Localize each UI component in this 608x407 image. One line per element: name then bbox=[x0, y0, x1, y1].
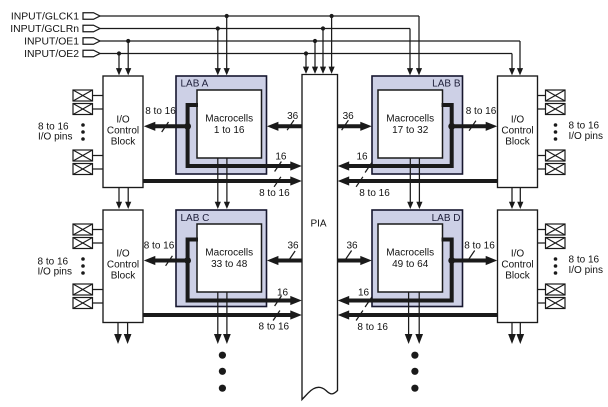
junction GLCK1-LABA bbox=[225, 14, 229, 18]
svg-text:Control: Control bbox=[107, 260, 139, 271]
bus PIA to LAB D (36) bbox=[338, 256, 372, 265]
junction OE2-PIA bbox=[304, 51, 308, 55]
label 8 to 16 I/O pins left bottom bbox=[38, 256, 72, 277]
label 8 to 16 (left I/O to PIA) bbox=[259, 188, 290, 199]
junction GCLRn-PIA bbox=[321, 26, 325, 30]
label 8 to 16 I/O pins right top bbox=[569, 121, 603, 143]
bus PIA to LAB C (36) bbox=[267, 256, 302, 265]
label 8 to 16 (right I/O to PIA) bbox=[359, 188, 390, 199]
svg-text:8 to 16: 8 to 16 bbox=[466, 106, 497, 117]
svg-text:PIA: PIA bbox=[310, 219, 326, 230]
svg-text:I/O: I/O bbox=[511, 115, 525, 126]
I/O pin symbol left bottom 4 bbox=[73, 298, 103, 309]
bus PIA to LAB A (36) bbox=[267, 122, 302, 131]
wire GCLRn drop to PIA bbox=[320, 29, 326, 74]
wire GCLRn drop to LAB B bbox=[407, 29, 413, 76]
input buffer INPUT/OE1 bbox=[83, 38, 100, 45]
I/O pin symbol left bottom 1 bbox=[73, 224, 103, 235]
bus width slash bbox=[468, 251, 475, 261]
LAB D block bbox=[372, 210, 463, 307]
I/O pin symbol left top 1 bbox=[73, 90, 103, 101]
bus width slash bbox=[342, 120, 349, 130]
label 8 to 16 (LAB D to I/O) bbox=[464, 240, 495, 251]
bus LAB A to left I/O (8 to 16) bbox=[144, 122, 188, 131]
svg-text:8 to 16: 8 to 16 bbox=[357, 322, 388, 333]
wire GLCK1 drop to LAB A bbox=[224, 16, 230, 75]
I/O pin symbol left bottom 3 bbox=[73, 284, 103, 295]
bus LAB C to PIA (16) bbox=[188, 240, 302, 306]
svg-text:LAB D: LAB D bbox=[432, 213, 461, 224]
PIA block bbox=[302, 75, 338, 400]
wire GLCK1 drop to LAB B bbox=[416, 16, 422, 75]
label 8 to 16 I/O pins left top bbox=[38, 122, 72, 143]
I/O Control Block top-right bbox=[498, 76, 538, 188]
bus width slash bbox=[274, 177, 281, 187]
junction bus LAB C bbox=[184, 257, 191, 264]
wires LAB A to LAB C bbox=[215, 158, 230, 209]
bus width slash bbox=[356, 311, 363, 321]
label 8 to 16 (LAB C to I/O) bbox=[144, 240, 175, 251]
I/O pin symbol left top 3 bbox=[73, 150, 103, 161]
svg-text:LAB A: LAB A bbox=[181, 79, 209, 90]
svg-text:1 to 16: 1 to 16 bbox=[214, 125, 245, 136]
macrocells 17 to 32 box bbox=[378, 90, 443, 158]
svg-text:Block: Block bbox=[505, 271, 530, 282]
svg-text:Block: Block bbox=[111, 271, 136, 282]
I/O pin symbol right bottom 2 bbox=[538, 238, 566, 249]
bus width slash bbox=[275, 162, 282, 172]
svg-text:INPUT/GCLRn: INPUT/GCLRn bbox=[10, 24, 79, 35]
bus LAB B to PIA (16) bbox=[338, 105, 452, 171]
I/O pins dots left top bbox=[81, 123, 85, 141]
I/O pin symbol right bottom 4 bbox=[538, 298, 566, 309]
I/O pin symbol right top 2 bbox=[538, 104, 566, 115]
bus width slash bbox=[469, 121, 476, 131]
wires below LAB C bbox=[214, 292, 231, 344]
svg-text:8 to 16: 8 to 16 bbox=[145, 106, 176, 117]
label 8 to 16 I/O pins right bottom bbox=[569, 255, 603, 276]
bus width slash bbox=[288, 251, 295, 261]
svg-text:Macrocells: Macrocells bbox=[205, 114, 253, 125]
I/O pin symbol right top 3 bbox=[538, 150, 566, 161]
bus width slash bbox=[162, 122, 169, 132]
LAB B block bbox=[372, 76, 463, 174]
bus LAB A to PIA (16) bbox=[188, 105, 302, 171]
continuation dots below LAB D bbox=[411, 352, 418, 392]
svg-text:Control: Control bbox=[501, 126, 533, 137]
svg-text:Macrocells: Macrocells bbox=[386, 248, 434, 259]
wire GLCK1 drop to PIA bbox=[329, 16, 335, 74]
svg-text:Macrocells: Macrocells bbox=[205, 248, 253, 259]
macrocells 33 to 48 box bbox=[197, 224, 262, 292]
I/O pins dots left bottom bbox=[81, 257, 85, 275]
svg-text:8 to 16: 8 to 16 bbox=[259, 322, 290, 333]
svg-text:LAB B: LAB B bbox=[432, 79, 461, 90]
bus LAB D to PIA (16) bbox=[338, 240, 452, 306]
svg-text:INPUT/OE2: INPUT/OE2 bbox=[24, 49, 79, 60]
svg-text:16: 16 bbox=[277, 287, 289, 298]
I/O pin symbol left top 4 bbox=[73, 164, 103, 175]
I/O Control Block bottom-left bbox=[103, 210, 143, 323]
svg-text:8 to 16: 8 to 16 bbox=[569, 121, 600, 132]
label 8 to 16 (LAB B to I/O) bbox=[466, 106, 497, 117]
I/O pin symbol left bottom 2 bbox=[73, 238, 103, 249]
junction bus LAB A bbox=[184, 123, 191, 130]
svg-text:36: 36 bbox=[287, 240, 299, 251]
junction OE1-PIA bbox=[313, 39, 317, 43]
label 16 (LAB D to PIA) bbox=[358, 287, 370, 298]
svg-text:8 to 16: 8 to 16 bbox=[464, 240, 495, 251]
wires LAB B to LAB D bbox=[407, 158, 422, 209]
bus width slash bbox=[166, 256, 173, 266]
svg-text:INPUT/GLCK1: INPUT/GLCK1 bbox=[11, 12, 79, 23]
label 36 (PIA to LAB C) bbox=[287, 240, 299, 251]
svg-text:Macrocells: Macrocells bbox=[386, 114, 434, 125]
macrocells 49 to 64 box bbox=[378, 224, 443, 292]
bus LAB D to right I/O (8 to 16) bbox=[452, 256, 498, 265]
svg-text:LAB C: LAB C bbox=[181, 213, 210, 224]
wire OE2 drop to right I/O block bbox=[509, 54, 515, 76]
I/O pin symbol right top 4 bbox=[538, 164, 566, 175]
bus PIA to LAB B (36) bbox=[338, 122, 372, 131]
wire OE2 drop to left I/O block bbox=[116, 54, 122, 76]
svg-text:16: 16 bbox=[356, 152, 368, 163]
svg-text:33 to 48: 33 to 48 bbox=[211, 259, 248, 270]
label INPUT/OE2 bbox=[24, 49, 79, 60]
macrocells 1 to 16 box bbox=[197, 90, 262, 158]
input buffer INPUT/GLCK1 bbox=[83, 13, 100, 20]
bus right I/O to PIA lower (8 to 16) bbox=[338, 310, 498, 319]
wire OE1 drop to left I/O block bbox=[125, 41, 131, 75]
svg-text:8 to 16: 8 to 16 bbox=[359, 188, 390, 199]
svg-text:I/O pins: I/O pins bbox=[38, 131, 72, 142]
wire INPUT/GLCK1 horizontal bbox=[100, 15, 419, 17]
wire INPUT/OE1 horizontal bbox=[100, 40, 520, 42]
svg-text:Block: Block bbox=[111, 137, 136, 148]
wires left I/O top to bottom block bbox=[116, 188, 131, 210]
continuation dots below LAB C bbox=[219, 352, 226, 392]
input buffer INPUT/OE2 bbox=[83, 50, 100, 57]
svg-text:49 to 64: 49 to 64 bbox=[392, 259, 429, 270]
svg-text:36: 36 bbox=[346, 240, 358, 251]
svg-text:8 to 16: 8 to 16 bbox=[259, 188, 290, 199]
svg-text:I/O: I/O bbox=[116, 249, 130, 260]
wires below bottom-left I/O block bbox=[114, 323, 131, 345]
junction bus LAB D bbox=[448, 257, 455, 264]
junction bus LAB B bbox=[448, 123, 455, 130]
svg-text:I/O pins: I/O pins bbox=[569, 131, 603, 142]
LAB C block bbox=[176, 210, 267, 307]
label 36 (PIA to LAB A) bbox=[287, 111, 299, 122]
junction GLCK1-PIA bbox=[330, 14, 334, 18]
svg-text:I/O: I/O bbox=[116, 115, 130, 126]
bus width slash bbox=[345, 251, 352, 261]
wire INPUT/OE2 horizontal bbox=[100, 53, 512, 55]
label 8 to 16 (right I/O to PIA lower) bbox=[357, 322, 388, 333]
label INPUT/GCLRn bbox=[10, 24, 79, 35]
label INPUT/OE1 bbox=[24, 37, 79, 48]
bus width slash bbox=[365, 297, 372, 307]
wire OE1 drop to right I/O block bbox=[517, 41, 523, 75]
junction GCLRn-LABA bbox=[216, 26, 220, 30]
bus right I/O to PIA (8 to 16) bbox=[338, 176, 498, 185]
wires right I/O top to bottom block bbox=[509, 188, 524, 210]
bus width slash bbox=[275, 296, 282, 306]
wire OE2 drop to PIA bbox=[303, 54, 309, 74]
label 36 (PIA to LAB B) bbox=[343, 111, 355, 122]
svg-text:16: 16 bbox=[275, 151, 287, 162]
LAB A block bbox=[176, 76, 267, 174]
I/O pin symbol right bottom 3 bbox=[538, 284, 566, 295]
svg-text:8 to 16: 8 to 16 bbox=[144, 240, 175, 251]
svg-text:I/O pins: I/O pins bbox=[569, 265, 603, 276]
I/O pins dots right bottom bbox=[554, 257, 558, 275]
wires below LAB D bbox=[405, 292, 423, 344]
junction OE2-left bbox=[117, 51, 121, 55]
svg-text:Control: Control bbox=[107, 126, 139, 137]
svg-text:16: 16 bbox=[358, 287, 370, 298]
bus width slash bbox=[273, 311, 280, 321]
svg-text:Control: Control bbox=[501, 260, 533, 271]
bus width slash bbox=[356, 177, 363, 187]
I/O pin symbol right top 1 bbox=[538, 90, 566, 101]
label 16 (LAB A to PIA) bbox=[275, 151, 287, 162]
I/O Control Block bottom-right bbox=[498, 210, 538, 323]
label 8 to 16 (left I/O to PIA lower) bbox=[259, 322, 290, 333]
label 16 (LAB B to PIA) bbox=[356, 152, 368, 163]
label 16 (LAB C to PIA) bbox=[277, 287, 289, 298]
svg-text:INPUT/OE1: INPUT/OE1 bbox=[24, 37, 79, 48]
label INPUT/GLCK1 bbox=[11, 12, 79, 23]
svg-text:Block: Block bbox=[505, 137, 530, 148]
I/O pin symbol right bottom 1 bbox=[538, 224, 566, 235]
bus width slash bbox=[287, 120, 294, 130]
bus left I/O to PIA lower (8 to 16) bbox=[143, 310, 302, 319]
svg-text:36: 36 bbox=[287, 111, 299, 122]
input buffer INPUT/GCLRn bbox=[83, 25, 100, 32]
label 36 (PIA to LAB D) bbox=[346, 240, 358, 251]
I/O pin symbol left top 2 bbox=[73, 104, 103, 115]
svg-text:I/O: I/O bbox=[511, 249, 525, 260]
bus left I/O to PIA (8 to 16) bbox=[143, 176, 302, 185]
wire OE1 drop to PIA bbox=[312, 41, 318, 74]
junction OE1-left bbox=[126, 39, 130, 43]
svg-text:17 to 32: 17 to 32 bbox=[392, 125, 429, 136]
wires below bottom-right I/O block bbox=[508, 323, 524, 345]
wire INPUT/GCLRn horizontal bbox=[100, 28, 410, 30]
wire GCLRn drop to LAB A bbox=[215, 29, 221, 76]
I/O Control Block top-left bbox=[103, 76, 143, 188]
svg-text:I/O pins: I/O pins bbox=[38, 267, 72, 278]
label 8 to 16 (LAB A to I/O) bbox=[145, 106, 176, 117]
I/O pins dots right top bbox=[554, 123, 558, 141]
bus width slash bbox=[365, 163, 372, 173]
bus LAB C to left I/O (8 to 16) bbox=[144, 256, 188, 265]
bus LAB B to right I/O (8 to 16) bbox=[452, 122, 498, 131]
